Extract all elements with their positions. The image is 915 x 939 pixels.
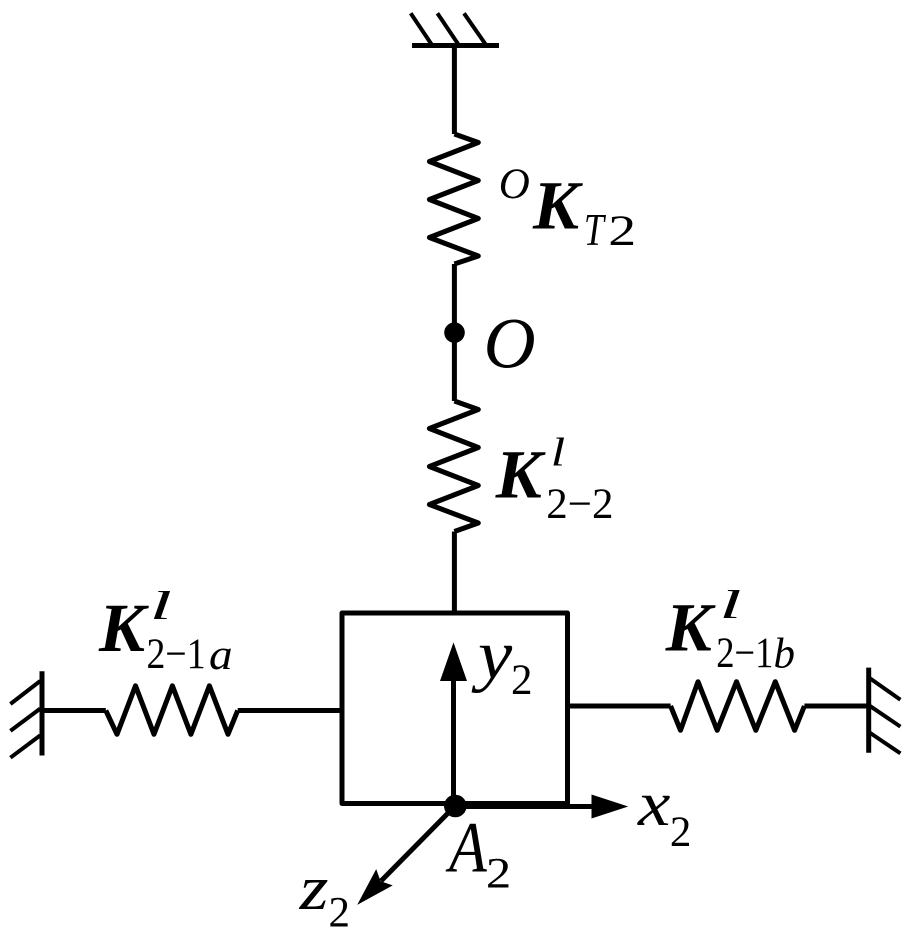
spring K2-1b [671,682,805,731]
node O dot [444,322,465,343]
y2 axis arrow shaft [451,678,456,806]
svg-text:l: l [551,431,565,475]
mass box [342,613,568,804]
wire spring K2-2 to mass box [452,532,457,614]
svg-text:x: x [637,768,670,839]
svg-text:b: b [774,631,796,678]
spring K2-1a [106,686,238,735]
svg-text:K: K [98,590,149,666]
spring KT2 [429,134,478,264]
svg-text:a: a [209,631,233,679]
svg-text:T: T [584,205,607,255]
wire node O to spring K2-2 [452,333,457,401]
x2 axis arrow shaft [455,804,594,809]
spring K2-2 [429,401,478,532]
svg-text:2: 2 [608,207,636,254]
wire mass box to spring K2-1b [568,704,671,709]
node A2 dot [444,795,467,818]
wire spring K2-1a to mass box [238,708,342,713]
svg-text:K: K [495,437,546,513]
svg-text:l: l [150,584,172,628]
svg-text:K: K [532,168,583,244]
wire top wall to spring KT2 [452,43,457,134]
svg-text:2: 2 [670,809,692,856]
svg-text:2−1: 2−1 [716,628,773,676]
y2 arrowhead [440,642,467,681]
wire spring K2-1b to right wall [804,704,868,709]
top fixed wall [411,13,499,45]
left fixed wall [10,671,42,757]
svg-text:A: A [445,807,487,887]
svg-text:O: O [499,161,530,208]
svg-text:K: K [665,590,716,666]
z2 axis arrow shaft [381,806,455,881]
svg-text:l: l [719,583,741,627]
svg-text:2−2: 2−2 [546,481,613,528]
svg-text:O: O [484,304,536,384]
svg-text:z: z [299,852,329,923]
right fixed wall [869,668,901,754]
x2 arrowhead [592,795,629,819]
svg-text:y: y [471,615,513,693]
svg-text:2: 2 [329,890,351,937]
wire spring KT2 to node O [452,264,457,333]
svg-text:2: 2 [486,850,511,898]
wire left wall to spring K2-1a [42,708,106,713]
z2 arrowhead [357,869,393,905]
svg-text:2: 2 [511,657,533,704]
svg-text:2−1: 2−1 [147,630,206,678]
